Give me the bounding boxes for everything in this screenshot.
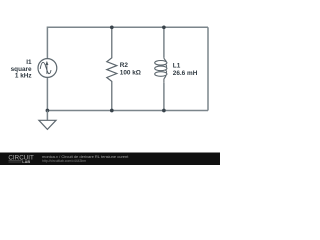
- wire: source bottom lead: [46, 78, 48, 111]
- current source I1: [38, 59, 57, 78]
- svg-text:LAB: LAB: [22, 160, 30, 164]
- node: L1 top junction: [162, 25, 166, 29]
- ground: [39, 120, 56, 129]
- label L1 26.6 mH: [173, 62, 198, 77]
- svg-text:1 kHz: 1 kHz: [15, 73, 32, 80]
- svg-text:100 kΩ: 100 kΩ: [120, 70, 141, 77]
- resistor R2: [107, 27, 117, 110]
- svg-text:R2: R2: [120, 62, 129, 69]
- svg-text:L1: L1: [173, 62, 181, 69]
- node: R2 top junction: [110, 25, 114, 29]
- wire: bottom rail: [47, 110, 208, 112]
- wire: top rail from source to right side: [47, 27, 208, 58]
- wire: right vertical segment: [207, 27, 209, 110]
- watermark logo CIRCUIT LAB: [8, 155, 34, 165]
- label R2 100 kOhm: [120, 62, 141, 77]
- label I1 square 1 kHz: [11, 59, 32, 79]
- node: R2 bottom junction: [110, 109, 114, 113]
- watermark bar: [0, 153, 220, 166]
- node: L1 bottom junction: [162, 109, 166, 113]
- wire: ground stub: [46, 111, 48, 121]
- node: source bottom junction: [46, 109, 50, 113]
- inductor L1: [155, 27, 167, 110]
- svg-text:http://circuitlab.com/c4443bm: http://circuitlab.com/c4443bm: [42, 159, 86, 163]
- svg-text:26.6 mH: 26.6 mH: [173, 70, 198, 77]
